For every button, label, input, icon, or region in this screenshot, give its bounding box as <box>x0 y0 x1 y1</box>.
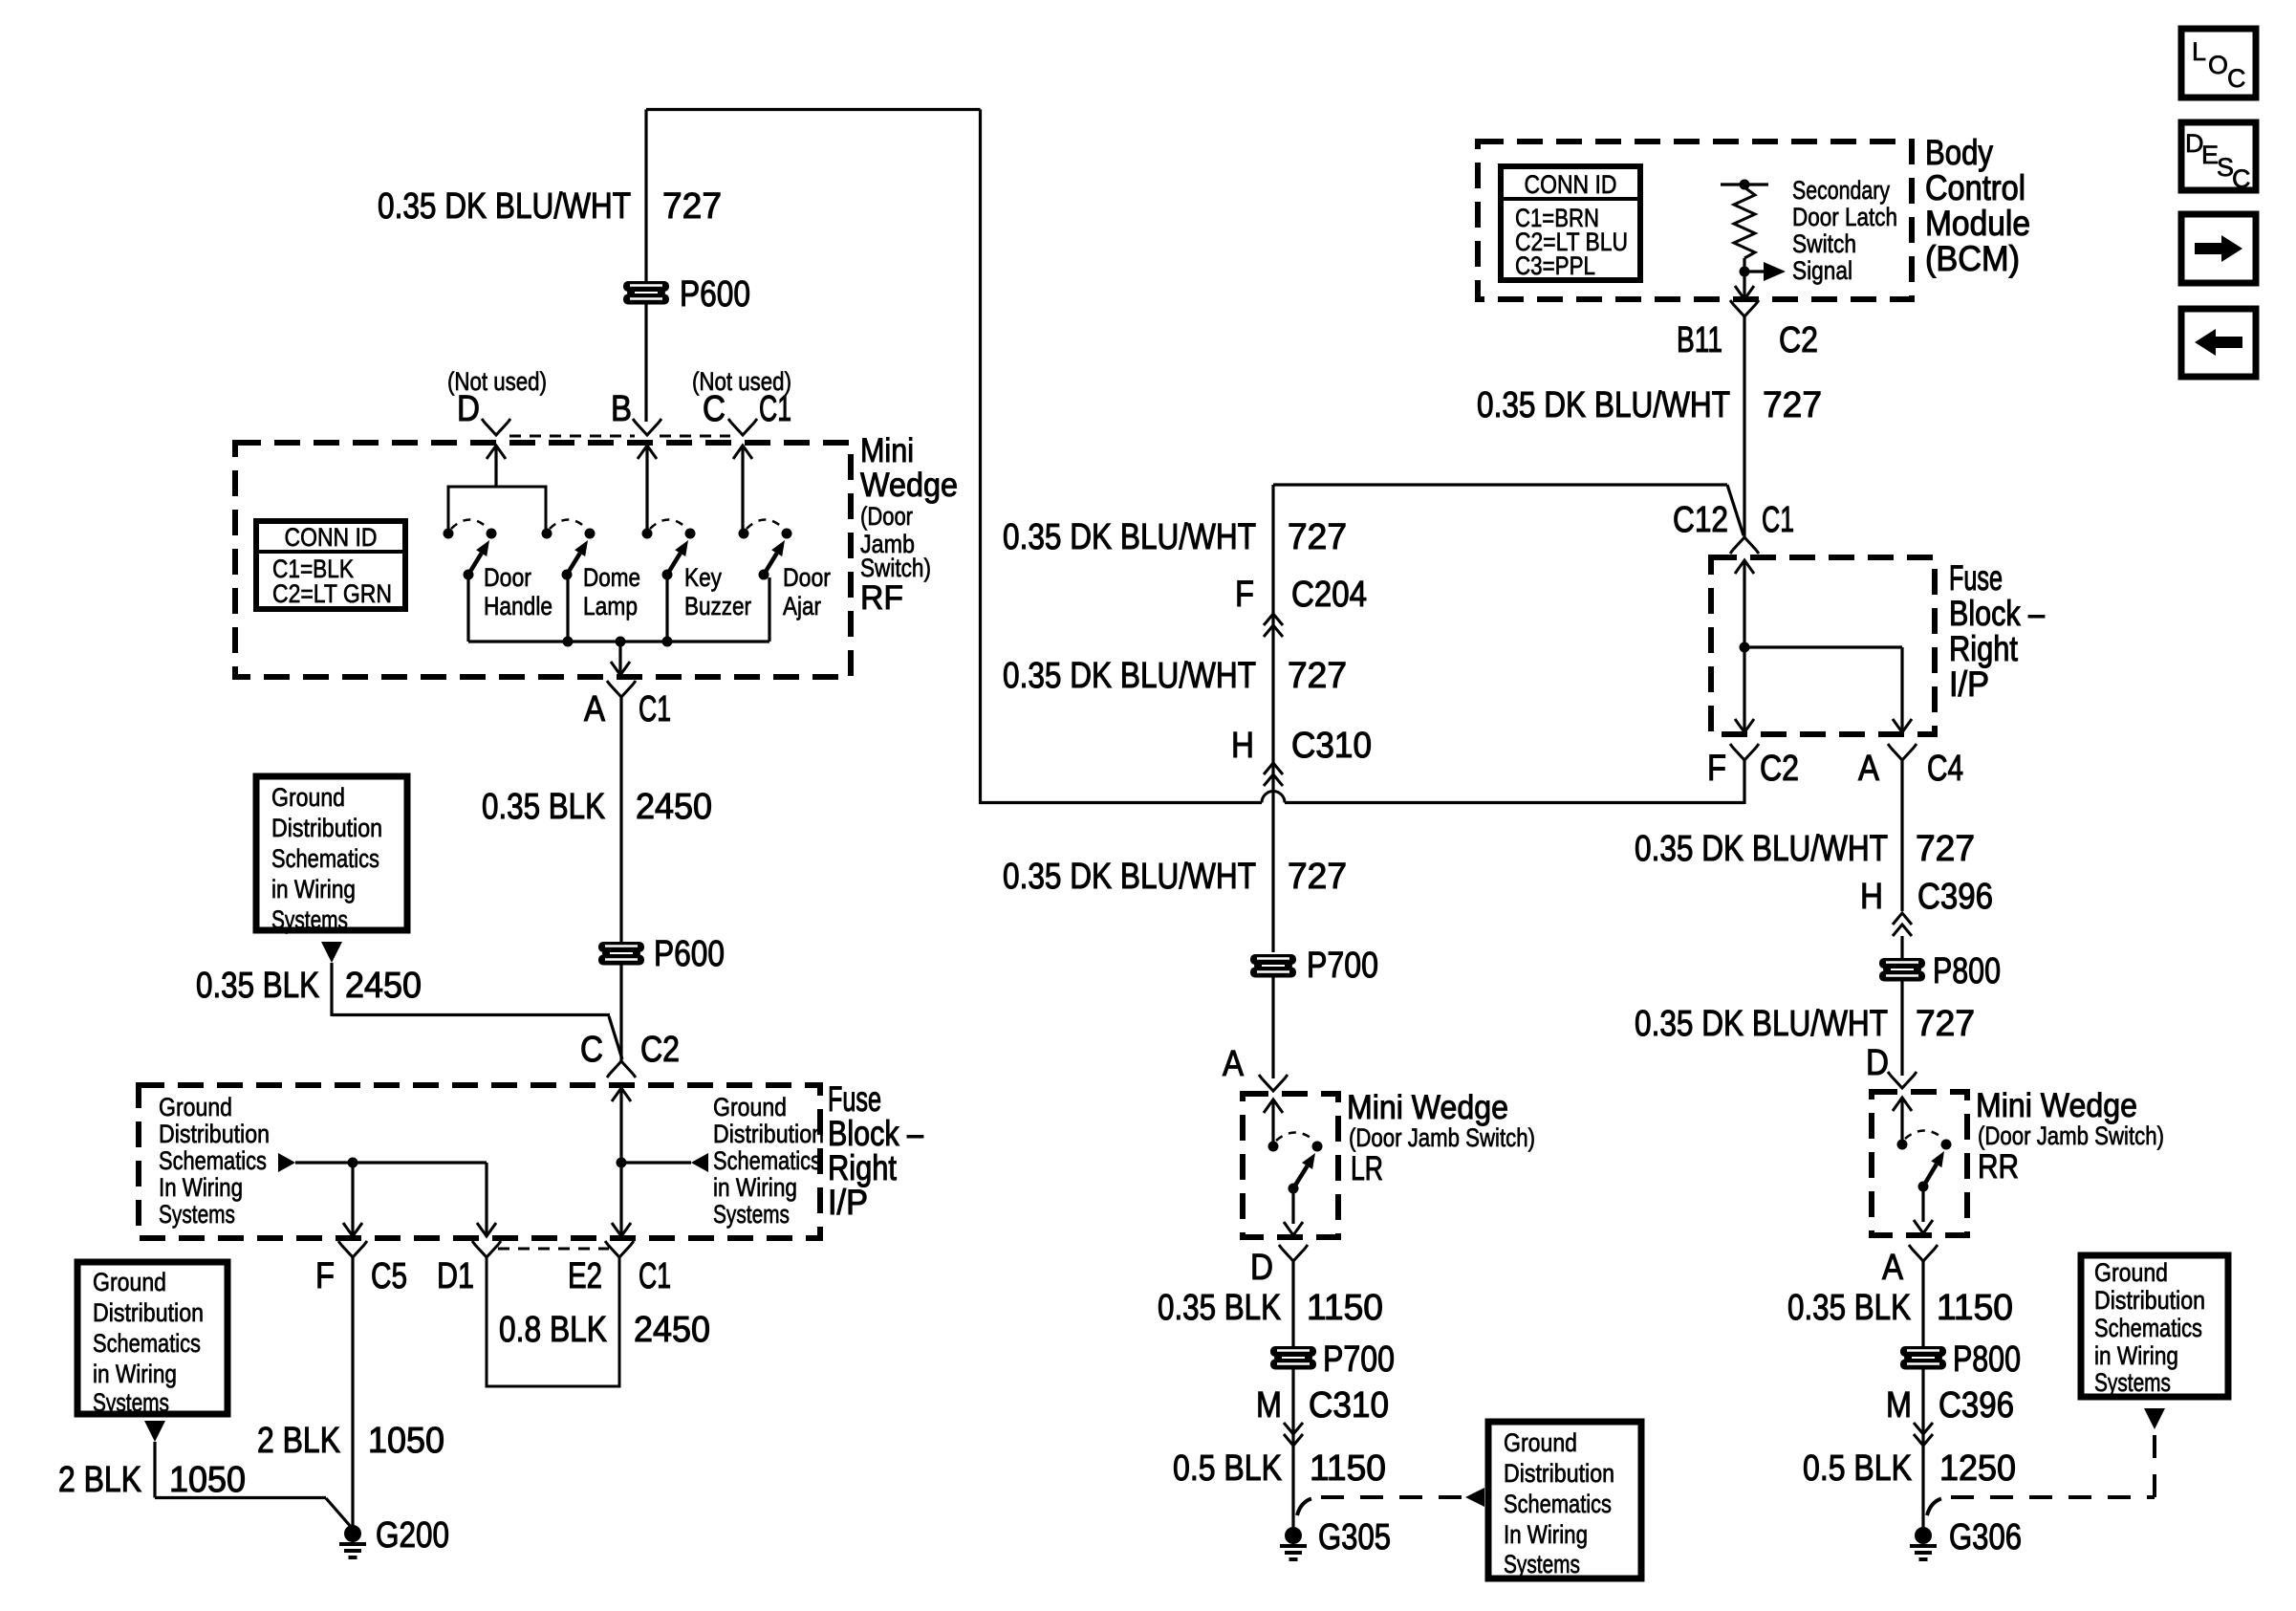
svg-text:727: 727 <box>1288 656 1347 696</box>
callout triangle below bottom-left box <box>144 1421 165 1442</box>
svg-text:Distribution: Distribution <box>271 814 382 842</box>
svg-text:G305: G305 <box>1318 1517 1391 1557</box>
RF exit arrow to pin A <box>618 642 621 672</box>
svg-text:H: H <box>1231 726 1254 766</box>
svg-text:C1: C1 <box>1762 500 1794 540</box>
LR callout triangle <box>1465 1488 1484 1507</box>
svg-text:A: A <box>1223 1044 1245 1084</box>
Mini Wedge LR box with switch <box>1243 1094 1338 1237</box>
RR callout triangle <box>2144 1408 2165 1429</box>
svg-text:M: M <box>1256 1385 1282 1426</box>
svg-text:Mini Wedge: Mini Wedge <box>1347 1089 1508 1126</box>
svg-text:(BCM): (BCM) <box>1925 239 2020 278</box>
diagonal lead into C12 C1 <box>1727 485 1744 535</box>
svg-text:L: L <box>2192 37 2206 66</box>
svg-text:Buzzer: Buzzer <box>684 592 751 620</box>
CONN ID table BCM <box>1501 166 1640 280</box>
svg-text:727: 727 <box>1763 385 1822 425</box>
svg-text:C2: C2 <box>640 1030 680 1070</box>
svg-text:1150: 1150 <box>1310 1448 1386 1489</box>
switch Dome Lamp <box>542 520 596 580</box>
bus junction dots <box>563 637 574 647</box>
Fuse Block Right I/P dashed box right <box>1711 557 1935 734</box>
svg-text:Systems: Systems <box>271 905 348 934</box>
next arrow icon box <box>2181 214 2256 283</box>
svg-text:E2: E2 <box>568 1256 602 1296</box>
svg-text:2 BLK: 2 BLK <box>58 1460 141 1500</box>
wire P600 to connector C of C2 <box>619 965 622 1061</box>
svg-text:0.35 DK BLU/WHT: 0.35 DK BLU/WHT <box>1003 656 1256 696</box>
svg-text:1150: 1150 <box>1937 1288 2013 1328</box>
svg-text:C1: C1 <box>639 1256 671 1296</box>
female connector D1 <box>472 1241 501 1257</box>
svg-text:727: 727 <box>1288 857 1347 897</box>
wire horizontal to fuse block F C2 with hop <box>980 801 1262 804</box>
female connector D <box>482 419 510 435</box>
svg-text:in Wiring: in Wiring <box>713 1173 797 1202</box>
female connector F C2 <box>1730 744 1759 760</box>
right callout triangle <box>691 1153 708 1172</box>
svg-text:Distribution: Distribution <box>1504 1459 1614 1488</box>
svg-text:I/P: I/P <box>828 1183 868 1222</box>
svg-text:B11: B11 <box>1677 320 1722 360</box>
wire A to P600 lower <box>619 708 622 942</box>
in-line connector C12 C1 <box>1730 537 1759 554</box>
svg-text:0.35 BLK: 0.35 BLK <box>196 966 319 1006</box>
svg-text:Block –: Block – <box>828 1114 923 1153</box>
svg-text:P600: P600 <box>654 934 725 974</box>
svg-text:Signal: Signal <box>1792 256 1852 285</box>
svg-text:C310: C310 <box>1291 726 1372 766</box>
callout triangle below box <box>321 942 342 963</box>
svg-text:LR: LR <box>1351 1150 1383 1187</box>
svg-text:CONN ID: CONN ID <box>1525 170 1617 199</box>
svg-text:CONN ID: CONN ID <box>285 523 378 552</box>
svg-text:2450: 2450 <box>345 966 422 1006</box>
svg-text:Switch): Switch) <box>860 554 931 582</box>
svg-text:(Door Jamb Switch): (Door Jamb Switch) <box>1349 1123 1535 1152</box>
svg-text:Secondary: Secondary <box>1792 176 1890 205</box>
chevron connector C396 upper <box>1893 913 1912 936</box>
svg-text:2450: 2450 <box>636 787 712 827</box>
grommet P600 lower <box>598 942 644 966</box>
Ground Distribution callout box G305 <box>1488 1422 1641 1578</box>
female connector F C5 <box>338 1241 367 1257</box>
LOC icon box <box>2181 29 2256 98</box>
junction dot resistor top <box>1740 180 1750 190</box>
svg-text:Control: Control <box>1925 168 2025 207</box>
svg-text:C12: C12 <box>1673 500 1728 540</box>
svg-text:0.8 BLK: 0.8 BLK <box>499 1310 607 1350</box>
grommet P800 upper <box>1879 958 1925 982</box>
svg-text:H: H <box>1860 877 1883 917</box>
switch Key Buzzer <box>642 520 696 580</box>
svg-text:727: 727 <box>1288 517 1347 557</box>
fuse right exit arrows <box>1735 719 1754 732</box>
svg-text:Module: Module <box>1925 204 2030 243</box>
stub horizontal to C2 connector <box>332 1013 610 1016</box>
female connector D RR <box>1888 1072 1917 1088</box>
svg-text:Key: Key <box>684 563 722 592</box>
svg-text:Systems: Systems <box>159 1200 235 1229</box>
svg-text:Distribution: Distribution <box>713 1120 824 1148</box>
svg-text:C5: C5 <box>371 1256 407 1296</box>
left branch wire <box>295 1161 487 1164</box>
CONN ID table RF <box>256 521 405 609</box>
svg-text:G306: G306 <box>1949 1517 2022 1557</box>
RF entry arrow pin D <box>487 446 506 459</box>
ground stub wire 2450 <box>330 963 333 1016</box>
svg-text:Schematics: Schematics <box>159 1146 267 1175</box>
female connector A C4 <box>1888 744 1917 760</box>
svg-text:G200: G200 <box>376 1515 449 1556</box>
wire from P600 down to RF connector pin B <box>644 304 647 422</box>
svg-text:0.5 BLK: 0.5 BLK <box>1803 1448 1912 1489</box>
svg-text:Fuse: Fuse <box>1949 558 2003 598</box>
connector C1 dashed link <box>498 1248 609 1251</box>
signal arrow <box>1744 270 1764 272</box>
switch pivot stems to bus <box>466 577 469 642</box>
jumper loop 0.8 BLK 2450 <box>487 1257 619 1386</box>
svg-text:1050: 1050 <box>368 1421 444 1461</box>
svg-text:Ground: Ground <box>2094 1258 2168 1287</box>
wire top horizontal 727 run <box>646 108 981 111</box>
wire vertical from top run down to P600 <box>644 110 647 282</box>
BCM exit arrow <box>1735 286 1754 299</box>
svg-text:D: D <box>457 389 480 429</box>
svg-text:C396: C396 <box>1917 877 1993 917</box>
switch Door Ajar <box>739 520 792 580</box>
svg-text:F: F <box>1235 575 1254 615</box>
Mini Wedge RR box with switch <box>1872 1092 1967 1235</box>
Ground Distribution callout box upper-left <box>256 776 407 930</box>
svg-text:Door: Door <box>783 563 831 592</box>
svg-text:in Wiring: in Wiring <box>271 875 356 903</box>
resistor secondary door latch switch <box>1734 187 1755 258</box>
wire BCM to C12 <box>1743 329 1745 537</box>
chevron connector C204 <box>1264 614 1283 637</box>
RF internal ground bus <box>468 640 769 642</box>
svg-text:A: A <box>1858 749 1880 789</box>
svg-text:Distribution: Distribution <box>2094 1286 2205 1315</box>
svg-text:2450: 2450 <box>634 1310 710 1350</box>
female connector B <box>633 419 661 435</box>
svg-text:Door: Door <box>484 563 531 592</box>
svg-text:D: D <box>1250 1248 1273 1288</box>
svg-text:Mini Wedge: Mini Wedge <box>1976 1087 2137 1124</box>
svg-text:C2: C2 <box>1779 320 1818 360</box>
svg-text:Distribution: Distribution <box>159 1120 270 1148</box>
svg-text:Right: Right <box>828 1148 898 1187</box>
prev arrow icon box <box>2181 309 2256 377</box>
RR lower run A 0.35 BLK 1150 P800 M C396 G306 <box>1909 1245 1938 1261</box>
svg-text:Schematics: Schematics <box>713 1146 821 1175</box>
connector C1 dashed group line <box>509 435 635 438</box>
svg-text:1150: 1150 <box>1307 1288 1383 1328</box>
svg-text:0.35 DK BLU/WHT: 0.35 DK BLU/WHT <box>1003 517 1256 557</box>
svg-text:C1: C1 <box>639 689 671 729</box>
svg-text:in Wiring: in Wiring <box>2094 1341 2178 1370</box>
female connector A LR <box>1259 1075 1288 1091</box>
female connector C <box>728 419 757 435</box>
svg-text:F: F <box>315 1256 335 1296</box>
svg-text:Mini: Mini <box>860 432 914 469</box>
Mini Wedge RF dashed box <box>235 443 851 677</box>
svg-text:Dome: Dome <box>583 563 640 592</box>
bracket from pin D to two switch contacts <box>448 487 546 529</box>
svg-text:1050: 1050 <box>169 1460 246 1500</box>
svg-text:Systems: Systems <box>2094 1368 2171 1397</box>
svg-text:Right: Right <box>1949 629 2019 668</box>
svg-text:0.35 DK BLU/WHT: 0.35 DK BLU/WHT <box>378 186 631 227</box>
wire P700 to LR box <box>1271 977 1274 1078</box>
DESC icon box <box>2181 122 2256 190</box>
stub wire 2 BLK 1050 left <box>153 1442 156 1498</box>
in-line connector C C2 <box>607 1061 636 1078</box>
svg-text:Ground: Ground <box>1504 1428 1577 1457</box>
fuse right junction dot <box>1740 642 1750 653</box>
chevron connector C310 <box>1264 763 1283 786</box>
Fuse Block Right I/P dashed box left <box>139 1085 820 1238</box>
stub diagonal lead <box>609 1016 622 1059</box>
svg-text:C: C <box>703 389 726 429</box>
svg-text:0.35 BLK: 0.35 BLK <box>482 787 605 827</box>
svg-text:0.35 DK BLU/WHT: 0.35 DK BLU/WHT <box>1635 829 1888 869</box>
svg-text:RF: RF <box>860 579 903 617</box>
female connector B11 C2 <box>1730 300 1759 316</box>
RF entry arrow pin C <box>733 446 752 459</box>
BCM internal stub <box>1721 183 1768 185</box>
svg-text:P800: P800 <box>1953 1339 2021 1380</box>
svg-text:C3=PPL: C3=PPL <box>1515 251 1595 280</box>
svg-text:C2=LT GRN: C2=LT GRN <box>272 579 392 608</box>
wire P800 to RR box <box>1900 981 1903 1076</box>
svg-text:C: C <box>2227 64 2246 93</box>
svg-text:Schematics: Schematics <box>1504 1490 1612 1518</box>
svg-text:C: C <box>2232 164 2251 193</box>
wire from right run, vertical at x1025 <box>979 110 982 805</box>
svg-text:C396: C396 <box>1939 1385 2014 1426</box>
svg-text:M: M <box>1886 1385 1912 1426</box>
junction dot right branch <box>617 1158 627 1168</box>
svg-text:Distribution: Distribution <box>93 1298 204 1327</box>
svg-text:2 BLK: 2 BLK <box>257 1421 340 1461</box>
ground G200 <box>339 1525 366 1557</box>
svg-text:0.35 DK BLU/WHT: 0.35 DK BLU/WHT <box>1003 857 1256 897</box>
svg-text:Handle: Handle <box>484 592 552 620</box>
svg-text:P700: P700 <box>1323 1339 1395 1380</box>
diagonal lead to G200 <box>326 1498 352 1528</box>
svg-text:B: B <box>611 389 632 429</box>
RR ground callout dashed line <box>1927 1497 1951 1515</box>
Ground Distribution callout box bottom-left <box>77 1262 227 1414</box>
svg-text:Schematics: Schematics <box>271 844 379 873</box>
female connector A below RF box <box>607 681 636 697</box>
svg-text:0.35 DK BLU/WHT: 0.35 DK BLU/WHT <box>1635 1004 1888 1044</box>
fuse exit arrowhead main drop <box>612 1223 631 1236</box>
svg-text:(Door: (Door <box>860 502 913 531</box>
svg-text:Ground: Ground <box>271 783 345 812</box>
svg-text:Ground: Ground <box>93 1268 166 1296</box>
svg-text:Systems: Systems <box>1504 1550 1580 1578</box>
svg-text:RR: RR <box>1978 1148 2019 1186</box>
svg-text:D: D <box>1866 1043 1889 1083</box>
svg-text:A: A <box>1882 1248 1904 1288</box>
svg-text:727: 727 <box>1916 829 1975 869</box>
svg-text:In Wiring: In Wiring <box>1504 1520 1588 1549</box>
svg-text:Switch: Switch <box>1792 229 1856 258</box>
svg-text:Lamp: Lamp <box>583 592 638 620</box>
svg-text:0.35 BLK: 0.35 BLK <box>1158 1288 1281 1328</box>
svg-text:C204: C204 <box>1291 575 1367 615</box>
svg-text:C310: C310 <box>1309 1385 1389 1426</box>
svg-text:F: F <box>1707 749 1726 789</box>
drop to D1 <box>485 1163 487 1234</box>
svg-text:Body: Body <box>1925 133 1993 172</box>
svg-text:D1: D1 <box>437 1256 474 1296</box>
svg-text:C: C <box>580 1030 603 1070</box>
svg-text:0.5 BLK: 0.5 BLK <box>1173 1448 1282 1489</box>
svg-text:727: 727 <box>1916 1004 1975 1044</box>
wire A C4 down to RR box <box>1900 773 1903 911</box>
svg-text:C2: C2 <box>1760 749 1799 789</box>
branch to right callout triangle <box>621 1161 691 1164</box>
wire horizontal to C12 connector <box>1273 483 1727 486</box>
svg-text:I/P: I/P <box>1949 664 1989 704</box>
svg-text:P700: P700 <box>1307 946 1378 986</box>
svg-text:Schematics: Schematics <box>2094 1314 2202 1342</box>
wire up to F C2 connector <box>1743 760 1745 804</box>
svg-text:Systems: Systems <box>93 1388 169 1417</box>
svg-text:C1: C1 <box>759 389 791 429</box>
fuse right branch <box>1744 645 1902 648</box>
svg-text:Block –: Block – <box>1949 594 2045 633</box>
svg-text:O: O <box>2208 51 2228 79</box>
junction dot resistor bottom <box>1740 267 1750 277</box>
junction dot left branch <box>348 1158 358 1168</box>
Body Control Module dashed box <box>1478 142 1912 299</box>
svg-text:in Wiring: in Wiring <box>93 1360 177 1388</box>
svg-text:Ground: Ground <box>159 1093 232 1121</box>
svg-text:Door Latch: Door Latch <box>1792 203 1897 231</box>
RF entry arrow pin B <box>638 446 657 459</box>
fuse right entry arrow <box>1735 560 1754 574</box>
grommet P700 upper <box>1250 954 1296 978</box>
svg-text:Systems: Systems <box>713 1200 790 1229</box>
svg-text:A: A <box>584 689 606 729</box>
svg-text:1250: 1250 <box>1939 1448 2016 1489</box>
svg-text:P800: P800 <box>1933 951 2001 991</box>
switch Door Handle <box>444 520 497 580</box>
svg-text:0.35 DK BLU/WHT: 0.35 DK BLU/WHT <box>1477 385 1730 425</box>
left callout triangle <box>278 1153 295 1172</box>
svg-text:Schematics: Schematics <box>93 1329 201 1358</box>
LR lower run D 0.35 BLK 1150 P700 M C310 G305 <box>1279 1245 1308 1261</box>
Ground Distribution callout box G306 <box>2081 1255 2228 1397</box>
svg-text:Ground: Ground <box>713 1093 787 1121</box>
LR ground callout dashed line <box>1297 1497 1321 1515</box>
svg-text:0.35 BLK: 0.35 BLK <box>1787 1288 1911 1328</box>
wire vertical LR main <box>1271 485 1274 952</box>
grommet P600 upper <box>623 281 669 305</box>
svg-text:(Door Jamb Switch): (Door Jamb Switch) <box>1978 1121 2164 1150</box>
drop to F C5 <box>351 1163 354 1234</box>
female connector E2 C1 <box>605 1241 634 1257</box>
svg-text:P600: P600 <box>680 274 750 315</box>
svg-text:727: 727 <box>662 186 722 227</box>
svg-text:Fuse: Fuse <box>828 1079 881 1119</box>
svg-text:Ajar: Ajar <box>783 592 821 620</box>
fuse entry arrow from C2 <box>612 1088 631 1101</box>
svg-text:In Wiring: In Wiring <box>159 1173 243 1202</box>
svg-text:Wedge: Wedge <box>860 467 958 504</box>
svg-text:C4: C4 <box>1927 749 1963 789</box>
